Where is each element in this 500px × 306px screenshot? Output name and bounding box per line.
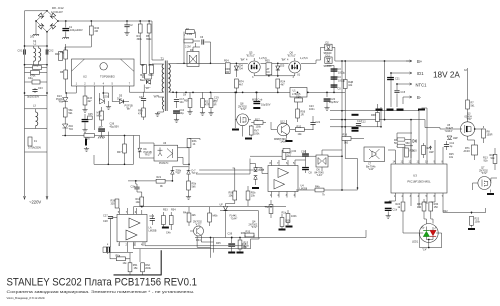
svg-text:D10: D10	[412, 150, 417, 153]
svg-text:1b2: 1b2	[287, 154, 292, 157]
svg-text:T04: T04	[239, 67, 244, 70]
svg-text:M6b: M6b	[213, 215, 218, 218]
svg-text:"C4": "C4"	[422, 249, 427, 252]
svg-text:1000µ: 1000µ	[338, 72, 346, 75]
svg-text:NTC1: NTC1	[416, 83, 428, 88]
svg-text:0.75A/250V: 0.75A/250V	[28, 147, 41, 150]
svg-text:"MT": "MT"	[153, 96, 158, 99]
svg-text:10µ/50V: 10µ/50V	[329, 101, 339, 104]
svg-text:"BA": "BA"	[240, 59, 245, 62]
svg-text:"BA": "BA"	[281, 59, 286, 62]
svg-text:R38: R38	[371, 114, 376, 117]
svg-text:200k: 200k	[145, 267, 151, 270]
svg-text:C22: C22	[316, 121, 321, 124]
svg-text:M0b: M0b	[97, 114, 102, 117]
svg-text:CX2: CX2	[49, 50, 54, 53]
svg-text:R33: R33	[241, 232, 246, 235]
svg-text:R07: R07	[117, 151, 122, 154]
svg-text:1N: 1N	[183, 94, 186, 97]
svg-text:10µ/50V: 10µ/50V	[261, 104, 271, 107]
svg-text:3M0: 3M0	[140, 74, 145, 77]
svg-text:C21: C21	[395, 78, 400, 81]
svg-text:"RW": "RW"	[58, 101, 64, 104]
svg-text:ID1: ID1	[417, 71, 424, 76]
svg-text:470: 470	[138, 112, 143, 115]
svg-text:STANLEY SC202 Плата PCB17156: STANLEY SC202 Плата PCB17156 REV0.1	[7, 277, 198, 289]
svg-text:R33: R33	[246, 231, 251, 234]
svg-text:100n: 100n	[309, 108, 315, 111]
svg-text:390k: 390k	[137, 38, 143, 41]
svg-text:"GA4": "GA4"	[231, 217, 238, 220]
svg-text:"Y0": "Y0"	[176, 172, 181, 175]
svg-text:"9Y1": "9Y1"	[192, 172, 198, 175]
svg-text:T04: T04	[69, 128, 74, 131]
svg-text:18V 2A: 18V 2A	[433, 71, 460, 80]
svg-text:"K72": "K72"	[251, 226, 257, 229]
svg-text:C03: C03	[38, 87, 43, 90]
svg-text:100k: 100k	[242, 246, 248, 249]
svg-text:R0b: R0b	[184, 100, 189, 103]
svg-text:Q12: Q12	[280, 121, 285, 124]
svg-text:4n7: 4n7	[214, 99, 219, 102]
svg-text:Volvin_Владимир_И 8.12.2022г: Volvin_Владимир_И 8.12.2022г	[7, 296, 46, 300]
svg-text:Z0V: Z0V	[104, 96, 109, 99]
svg-text:100µx400V: 100µx400V	[70, 29, 83, 32]
svg-text:560: 560	[344, 142, 349, 145]
svg-text:100k: 100k	[475, 220, 481, 223]
svg-text:5k1: 5k1	[471, 104, 476, 107]
svg-text:AK03: AK03	[464, 150, 471, 153]
svg-text:U2: U2	[83, 75, 87, 79]
svg-text:C4b: C4b	[166, 232, 171, 235]
svg-text:"1AM": "1AM"	[280, 141, 287, 144]
svg-text:PIC16F1503-MSL: PIC16F1503-MSL	[407, 180, 431, 184]
svg-text:0R: 0R	[213, 103, 216, 106]
svg-text:Rb2: Rb2	[149, 64, 154, 67]
svg-text:R05: R05	[265, 60, 270, 63]
svg-text:2.2M: 2.2M	[187, 33, 193, 36]
svg-text:2M: 2M	[95, 30, 98, 33]
svg-text:UF: UF	[220, 204, 224, 207]
svg-text:"G9K1": "G9K1"	[445, 130, 453, 133]
svg-text:D8 - D12: D8 - D12	[52, 6, 64, 10]
svg-text:"K72": "K72"	[195, 223, 201, 226]
svg-text:4k6: 4k6	[192, 214, 197, 217]
svg-text:CX1: CX1	[18, 50, 23, 53]
svg-text:100b: 100b	[291, 215, 297, 218]
svg-text:R21: R21	[157, 176, 162, 179]
svg-text:R45: R45	[216, 242, 221, 245]
svg-text:4 X RL207: 4 X RL207	[51, 11, 63, 14]
svg-text:M05 C+b: M05 C+b	[252, 98, 263, 101]
svg-text:"MT": "MT"	[145, 87, 150, 90]
svg-text:LED1: LED1	[412, 241, 419, 244]
svg-text:100k: 100k	[254, 132, 260, 135]
svg-text:2n2: 2n2	[30, 36, 35, 39]
svg-text:"L44": "L44"	[368, 168, 374, 171]
svg-text:T1: T1	[161, 57, 165, 61]
svg-text:R32: R32	[297, 126, 302, 129]
svg-text:~220V: ~220V	[29, 200, 41, 205]
svg-text:"L44": "L44"	[317, 174, 323, 177]
svg-text:91b: 91b	[484, 159, 489, 162]
svg-text:Z05: Z05	[280, 65, 285, 68]
svg-text:C27: C27	[103, 215, 108, 218]
svg-text:"Bb": "Bb"	[126, 107, 131, 110]
svg-text:R44: R44	[196, 239, 201, 242]
svg-text:1R: 1R	[301, 113, 304, 116]
svg-text:LM35B: LM35B	[149, 230, 157, 233]
svg-text:R04: R04	[224, 60, 229, 63]
svg-text:R53: R53	[163, 209, 168, 212]
svg-text:R29: R29	[427, 147, 432, 150]
svg-text:"K72": "K72"	[481, 172, 487, 175]
svg-text:C12: C12	[361, 121, 366, 124]
svg-text:D1a: D1a	[117, 98, 122, 101]
svg-text:47R: 47R	[205, 103, 210, 106]
svg-text:C28: C28	[103, 220, 108, 223]
svg-text:0µ20/250V: 0µ20/250V	[27, 96, 39, 99]
svg-text:560: 560	[406, 142, 411, 145]
svg-text:R4b: R4b	[315, 186, 320, 189]
svg-text:TOP266EG: TOP266EG	[100, 75, 116, 79]
svg-text:R22: R22	[443, 210, 448, 213]
svg-text:40µ/35V: 40µ/35V	[110, 125, 120, 128]
svg-text:B+: B+	[417, 59, 423, 64]
svg-text:C6a: C6a	[28, 77, 33, 80]
svg-text:C15: C15	[401, 91, 406, 94]
svg-text:"61TL0": "61TL0"	[287, 54, 296, 57]
svg-text:Сохранена заводская маркировка: Сохранена заводская маркировка. Элементы…	[7, 289, 195, 294]
svg-text:R4d: R4d	[183, 212, 188, 215]
svg-text:100k: 100k	[285, 220, 291, 223]
svg-text:2W: 2W	[226, 71, 230, 74]
svg-text:1,2,5,6: 1,2,5,6	[300, 57, 308, 60]
svg-text:RV1: RV1	[34, 65, 39, 68]
svg-text:C0b: C0b	[296, 96, 301, 99]
svg-text:R54: R54	[171, 209, 176, 212]
svg-text:R1b: R1b	[282, 212, 287, 215]
svg-text:150: 150	[434, 206, 439, 209]
svg-text:C39: C39	[228, 233, 233, 236]
svg-text:330: 330	[111, 202, 116, 205]
svg-text:5k6: 5k6	[192, 185, 197, 188]
svg-text:Bav21: Bav21	[140, 79, 148, 82]
svg-text:10µ: 10µ	[180, 112, 185, 115]
svg-text:4k7: 4k7	[281, 83, 286, 86]
svg-text:150: 150	[417, 206, 422, 209]
svg-text:100k: 100k	[256, 126, 262, 129]
svg-text:4k7: 4k7	[239, 83, 244, 86]
svg-text:R6a: R6a	[116, 255, 121, 258]
svg-text:1000µ: 1000µ	[338, 80, 346, 83]
svg-text:150R: 150R	[487, 133, 493, 136]
svg-text:5M0: 5M0	[149, 74, 154, 77]
svg-text:"RG7": "RG7"	[145, 154, 152, 157]
svg-text:A9P: A9P	[429, 151, 434, 154]
svg-text:R36: R36	[343, 134, 348, 137]
svg-text:5k1: 5k1	[69, 112, 74, 115]
svg-text:U3: U3	[413, 174, 417, 178]
svg-text:A9P: A9P	[453, 137, 458, 140]
svg-text:PC817C: PC817C	[159, 162, 169, 165]
svg-text:"61TL0": "61TL0"	[246, 54, 255, 57]
svg-text:C3b: C3b	[131, 186, 136, 189]
svg-text:"K72": "K72"	[240, 108, 246, 111]
svg-text:B-: B-	[417, 95, 422, 100]
svg-text:4k7: 4k7	[88, 100, 93, 103]
svg-text:C30: C30	[292, 150, 297, 153]
svg-text:C05: C05	[88, 113, 93, 116]
